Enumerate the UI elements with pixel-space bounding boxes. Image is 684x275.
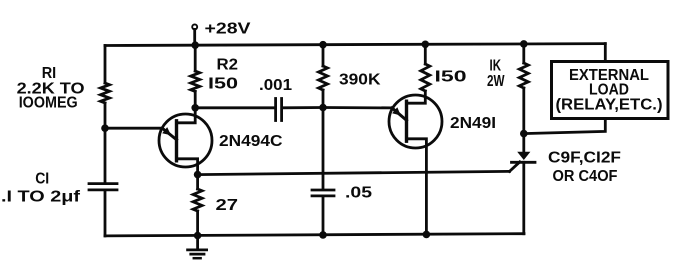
Q2 emitter diagonal [392, 108, 407, 120]
resistor R1 [101, 83, 110, 103]
svg-text:390K: 390K [339, 72, 381, 89]
ground [196, 236, 199, 249]
svg-text:RI: RI [42, 65, 57, 82]
svg-text:OR C4OF: OR C4OF [553, 168, 618, 185]
svg-text:.05: .05 [345, 185, 372, 202]
transistor Q2 2N491 body [389, 95, 442, 148]
wire top supply rail [105, 44, 605, 46]
node SCR anode [520, 130, 528, 138]
svg-text:C9F,CI2F: C9F,CI2F [548, 150, 621, 167]
node B1 27 gate [194, 171, 202, 179]
wire Q1 emitter [105, 127, 162, 130]
wire 27 top [196, 175, 199, 189]
SCR anode lead [522, 134, 525, 152]
wire load box top feed [604, 44, 607, 62]
wire R1 to C1 [104, 103, 107, 182]
svg-text:CI: CI [35, 171, 49, 188]
wire .05 to bottom rail [322, 197, 325, 235]
wire 27 bottom [196, 211, 199, 236]
svg-text:(RELAY,ETC.): (RELAY,ETC.) [556, 97, 663, 114]
resistor 150 (Q2) wires [424, 44, 427, 64]
svg-text:+28V: +28V [205, 21, 251, 38]
wire bottom ground rail [105, 234, 524, 236]
node top rail 1K [520, 40, 528, 48]
resistor 1K 2W [519, 63, 528, 88]
SCR triangle [517, 152, 530, 160]
wire left column top (rail to R1) [104, 46, 107, 84]
resistor R2 [191, 71, 200, 92]
svg-text:I50: I50 [435, 69, 467, 86]
wire terminal to rail [193, 29, 196, 45]
wire gate run (node B1 to SCR gate) [198, 171, 510, 174]
SCR cathode lead [522, 162, 525, 233]
svg-text:2W: 2W [487, 73, 505, 90]
wire node row: R2 node to .001 [195, 106, 274, 109]
capacitor .001 [276, 99, 282, 121]
wire .05 column [322, 108, 325, 189]
svg-text:IOOMEG: IOOMEG [19, 95, 78, 112]
node top rail 150 [422, 41, 430, 49]
resistor 27 [193, 189, 202, 211]
SCR cathode bar [512, 161, 536, 164]
svg-text:I50: I50 [208, 76, 238, 93]
node bottom rail .05 [319, 231, 327, 239]
transistor Q1 2N494C body [159, 114, 212, 167]
resistor 390K [319, 66, 328, 90]
node 390K .05 emitter [319, 104, 327, 112]
wire R2 to node B2 [194, 92, 197, 108]
svg-text:2N494C: 2N494C [219, 133, 283, 150]
resistor 1K 2W wires [522, 44, 525, 63]
Q1 base bar [175, 121, 178, 161]
Q1 emitter diagonal [162, 128, 176, 140]
resistor 390K wires [322, 45, 325, 66]
capacitor C1 [89, 184, 117, 190]
svg-text:.I TO 2μf: .I TO 2μf [1, 189, 81, 206]
wire gate diagonal [510, 162, 520, 172]
node bottom rail ground [194, 232, 202, 240]
node top rail 390K [319, 41, 327, 49]
external load box [552, 62, 669, 119]
Q2 base-2 lead [407, 91, 426, 103]
svg-text:2N49I: 2N49I [450, 115, 496, 132]
wire 390K node to Q2 emitter [323, 106, 392, 109]
wire .001 to 390K node [283, 106, 323, 109]
wire 390K bottom [322, 90, 325, 108]
Q2 emitter arrow [392, 107, 401, 115]
Q2 base-1 lead [407, 139, 427, 235]
Q1 emitter arrow [162, 127, 171, 135]
svg-text:27: 27 [216, 197, 239, 214]
node bottom rail Q2 B1 [423, 231, 431, 239]
wire R2 column (rail to R2) [194, 45, 197, 71]
wire load box bottom feed [524, 119, 606, 134]
node R1 emitter junction [101, 124, 109, 132]
wire C1 to bottom rail [104, 191, 107, 236]
Q1 base-1 lead [177, 159, 198, 175]
+28V terminal [192, 24, 197, 29]
svg-text:R2: R2 [217, 57, 239, 74]
Q1 base-2 lead [177, 108, 196, 123]
wire 1K to SCR anode node [522, 88, 525, 134]
node R2 B2 .001 [191, 104, 199, 112]
Q2 base bar [405, 101, 408, 141]
node top rail R2 [191, 41, 199, 49]
capacitor .05 [312, 190, 334, 196]
svg-text:.001: .001 [259, 77, 292, 94]
resistor 150 (Q2) [421, 64, 430, 91]
